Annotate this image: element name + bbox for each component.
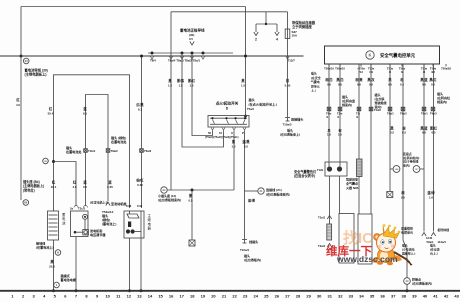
- svg-text:6.1: 6.1: [138, 108, 142, 112]
- node: rail junction T8a2: [191, 52, 194, 55]
- node W: circle on battery lead: [55, 250, 61, 256]
- svg-text:1.5: 1.5: [231, 145, 235, 149]
- svg-text:蓝: 蓝: [83, 106, 87, 111]
- svg-text:Z1: Z1: [259, 189, 263, 193]
- svg-text:0.5: 0.5: [400, 82, 404, 86]
- svg-text:线束内): 线束内): [437, 99, 447, 104]
- svg-text:26: 26: [275, 294, 280, 299]
- svg-text:21: 21: [222, 294, 227, 299]
- node K: circle label: [366, 51, 374, 59]
- wire: bridge left wire to generator plug: [85, 153, 87, 207]
- node 147: junction circle: [413, 166, 420, 173]
- node: branch junction: [191, 189, 194, 192]
- node: relay wire 1 at rail: [128, 289, 131, 292]
- driver airbag igniter N95: [325, 162, 347, 176]
- wire: stub to 148: [390, 168, 393, 170]
- svg-text:气囊电: 气囊电: [311, 79, 320, 84]
- svg-text:束内): 束内): [375, 104, 382, 109]
- node: battery junction: [52, 160, 55, 163]
- wire: clock spring down: [358, 177, 360, 215]
- wire: bracket drop right: [276, 24, 278, 32]
- svg-text:(在仪表板线束内): (在仪表板线束内): [158, 197, 181, 202]
- wire: rail to terminal 50: [192, 53, 213, 136]
- svg-text:蓝/黑: 蓝/黑: [248, 198, 256, 203]
- svg-text:7: 7: [75, 294, 78, 299]
- svg-text:42: 42: [444, 294, 449, 299]
- svg-text:T6e/1: T6e/1: [421, 112, 428, 116]
- svg-text:T8/4: T8/4: [150, 59, 156, 63]
- label: bracket arrows and track numbers: [254, 32, 258, 36]
- svg-text:36: 36: [380, 294, 385, 299]
- svg-text:1.5: 1.5: [338, 133, 342, 137]
- wire: K wire 4: [370, 64, 372, 214]
- wire: K wire 8: [433, 64, 435, 232]
- wire: inner bridge loop: [86, 95, 109, 149]
- wire: second top feed line: [171, 11, 288, 13]
- svg-text:(在安全: (在安全: [311, 75, 321, 80]
- svg-text:40: 40: [423, 294, 428, 299]
- svg-text:T10a/5: T10a/5: [283, 123, 292, 127]
- svg-text:T6e/2: T6e/2: [430, 112, 437, 116]
- wire: rail to terminal 15: [182, 53, 224, 147]
- svg-text:38: 38: [402, 294, 407, 299]
- svg-text:43: 43: [454, 294, 459, 299]
- svg-text:K: K: [369, 53, 372, 58]
- svg-text:P: P: [242, 131, 244, 135]
- svg-text:37: 37: [391, 294, 396, 299]
- svg-text:D: D: [226, 107, 229, 111]
- svg-text:(在蓄电池上): (在蓄电池上): [36, 245, 54, 250]
- svg-text:19: 19: [201, 294, 206, 299]
- svg-text:T2a/1: T2a/1: [318, 216, 326, 220]
- wire: bottom rail: [0, 290, 460, 292]
- svg-text:2a: 2a: [70, 207, 74, 211]
- svg-text:线接头: 线接头: [249, 239, 258, 244]
- svg-text:B4: B4: [24, 200, 28, 204]
- through connector block: [327, 224, 332, 240]
- svg-text:4.0: 4.0: [72, 185, 76, 189]
- svg-text:黑: 黑: [168, 78, 172, 83]
- wire: red/black wire to relay: [141, 153, 143, 209]
- svg-text:0.5: 0.5: [390, 131, 394, 135]
- svg-text:火器 N95: 火器 N95: [346, 185, 359, 190]
- svg-text:43: 43: [406, 279, 409, 283]
- svg-text:148: 148: [395, 169, 399, 171]
- wire: K wire 7: [423, 64, 425, 232]
- svg-text:23: 23: [243, 294, 248, 299]
- plug housing symbol: [189, 240, 195, 246]
- svg-text:15: 15: [158, 294, 163, 299]
- svg-text:黑: 黑: [241, 78, 245, 83]
- svg-text:T12b: T12b: [317, 168, 324, 172]
- svg-text:找IC: 找IC: [343, 229, 373, 247]
- node: feed dot on switch top: [244, 115, 247, 118]
- node B4: relay plate socket circle: [23, 200, 29, 206]
- wire: top feed line 30 from left corner: [21, 6, 246, 8]
- plug housing symbol right: [387, 192, 393, 198]
- node 148: junction circle: [393, 166, 400, 173]
- airbag control unit K: [325, 46, 440, 64]
- svg-text:9: 9: [96, 294, 99, 299]
- svg-text:22: 22: [232, 294, 237, 299]
- svg-text:(在仪表板内): (在仪表板内): [244, 257, 261, 262]
- svg-text:0.35: 0.35: [137, 183, 143, 187]
- wire: drop to fuse S37: [287, 12, 289, 29]
- wire: relay output 1: [129, 238, 131, 291]
- node: rail junction T8a: [181, 52, 184, 55]
- svg-text:在蓄电池处: 在蓄电池处: [66, 149, 82, 154]
- svg-text:(常电位): (常电位): [23, 187, 35, 192]
- svg-text:(在组合仪表中): (在组合仪表中): [294, 173, 315, 178]
- wire: bus rail upper segment: [148, 52, 233, 54]
- svg-text:线束内): 线束内): [342, 102, 352, 107]
- svg-text:蓄电池正极导线: 蓄电池正极导线: [180, 28, 205, 33]
- svg-text:0.5: 0.5: [83, 185, 87, 189]
- svg-text:(主继电器板上): (主继电器板上): [25, 72, 47, 77]
- ignition switch D: [208, 116, 249, 128]
- connector arc generator: [74, 206, 78, 208]
- svg-text:15: 15: [219, 131, 223, 135]
- svg-text:蓝/黑: 蓝/黑: [242, 139, 250, 144]
- svg-text:红/黑: 红/黑: [136, 102, 144, 107]
- svg-text:蓝/绿: 蓝/绿: [427, 190, 435, 195]
- svg-text:20: 20: [211, 294, 216, 299]
- svg-text:T10a/4: T10a/4: [240, 248, 249, 252]
- svg-text:1: 1: [56, 283, 58, 287]
- wire: P output to Z1: [245, 190, 258, 192]
- svg-text:点火/起动开关: 点火/起动开关: [216, 101, 239, 106]
- svg-text:35: 35: [370, 294, 375, 299]
- svg-text:4.0: 4.0: [16, 103, 20, 107]
- svg-text:T6a/1: T6a/1: [387, 112, 394, 116]
- wire: K wire 3: [358, 64, 360, 159]
- svg-text:T8a/4 T8a/3 T8a/2 T8a/1: T8a/4 T8a/3 T8a/2 T8a/1: [168, 59, 200, 63]
- svg-text:插头: 插头: [249, 97, 255, 102]
- svg-text:T12/7: T12/7: [288, 59, 296, 63]
- svg-text:棕: 棕: [399, 77, 404, 82]
- wire: generator ground lead: [75, 237, 77, 292]
- wire: bracket drop left: [255, 24, 257, 32]
- svg-text:束内): 束内): [403, 162, 410, 167]
- svg-text:至发动机舱: 至发动机舱: [111, 201, 127, 206]
- svg-text:T6a/2: T6a/2: [111, 149, 119, 153]
- svg-text:0.5: 0.5: [189, 37, 193, 41]
- svg-text:(在仪表板线束内): (在仪表板线束内): [266, 191, 290, 196]
- svg-text:39: 39: [412, 294, 417, 299]
- svg-text:台上.): 台上.): [430, 251, 438, 256]
- wire: harness connection bracket: [256, 23, 277, 25]
- connector marks below rail: [151, 57, 154, 60]
- svg-text:30: 30: [25, 59, 29, 63]
- svg-text:18: 18: [190, 294, 195, 299]
- svg-text:www.dzsc.com: www.dzsc.com: [336, 254, 398, 264]
- svg-text:黑/紫: 黑/紫: [177, 78, 185, 83]
- node 1: ground point circle: [54, 282, 60, 288]
- wire: switch P output: [244, 131, 246, 192]
- connector bar symbol: [242, 239, 247, 241]
- svg-text:1.5: 1.5: [178, 84, 182, 88]
- belt tensioner igniter box 2: [358, 214, 372, 264]
- svg-text:T6a/2: T6a/2: [400, 112, 407, 116]
- main relay J: [124, 211, 144, 238]
- svg-text:0.5: 0.5: [188, 199, 192, 203]
- node: relay wire 2 at rail: [140, 289, 143, 292]
- svg-text:10: 10: [105, 294, 110, 299]
- connector T6a/2 on right bridge wire: [106, 149, 110, 153]
- svg-text:A2: A2: [162, 188, 166, 192]
- svg-text:C48: C48: [126, 204, 132, 208]
- svg-text:27: 27: [285, 294, 290, 299]
- node A2: junction circle: [161, 187, 167, 193]
- svg-text:3: 3: [33, 294, 36, 299]
- svg-text:32: 32: [338, 294, 343, 299]
- svg-text:棕/红: 棕/红: [135, 178, 144, 183]
- node: rail junction T8a3: [202, 52, 205, 55]
- wire: battery negative lead: [53, 240, 55, 291]
- svg-text:上.): 上.): [311, 88, 316, 93]
- svg-text:黑: 黑: [232, 139, 236, 144]
- svg-text:4: 4: [276, 38, 278, 42]
- svg-text:1.5: 1.5: [189, 84, 193, 88]
- wire: drop from second feed to rail and circle A2: [170, 12, 172, 190]
- svg-text:电压调节器: 电压调节器: [90, 232, 106, 237]
- svg-text:1.0: 1.0: [429, 195, 433, 199]
- svg-text:28: 28: [296, 294, 301, 299]
- svg-text:(在发电机上1): (在发电机上1): [90, 200, 108, 205]
- node: bracket junction: [265, 23, 267, 25]
- wire: red/black wire from rail: [141, 56, 143, 149]
- svg-text:安全气囊电控单元: 安全气囊电控单元: [380, 52, 416, 59]
- svg-text:0.5: 0.5: [431, 131, 435, 135]
- node: junction red/black: [140, 55, 143, 58]
- wire: left wire from 30 rail down: [20, 7, 22, 201]
- arrow: belt tensioner wire 2: [431, 233, 435, 237]
- svg-text:6: 6: [64, 294, 67, 299]
- svg-text:蓄电池电缆: 蓄电池电缆: [61, 277, 77, 282]
- node: generator wire at bottom rail: [75, 289, 78, 292]
- svg-text:T2c/1: T2c/1: [78, 207, 86, 211]
- svg-text:1.5: 1.5: [168, 84, 172, 88]
- node 139: junction circle: [43, 158, 49, 164]
- svg-text:12: 12: [127, 294, 132, 299]
- node: wire 6 at bottom rail: [406, 289, 409, 292]
- svg-text:112a/1: 112a/1: [438, 240, 447, 244]
- wire: battery positive loop: [54, 75, 130, 211]
- wire: igniter wire 2 down: [339, 176, 341, 214]
- svg-text:+T50a: +T50a: [357, 66, 365, 70]
- svg-text:1.5: 1.5: [241, 84, 245, 88]
- node Z1: junction circle right: [258, 188, 264, 194]
- svg-text:T1b/1: T1b/1: [88, 149, 96, 153]
- svg-text:50: 50: [208, 131, 212, 135]
- battery A: [48, 211, 59, 240]
- wire: K wire 1: [328, 64, 330, 166]
- svg-text:55.4: 55.4: [48, 112, 54, 116]
- svg-text:插头: 插头: [311, 71, 317, 76]
- wire: K wire 2: [339, 64, 341, 166]
- svg-text:连接插头: 连接插头: [290, 117, 303, 122]
- node 30a: circle label on rail: [23, 58, 29, 64]
- svg-text:31: 31: [328, 294, 333, 299]
- svg-text:25: 25: [264, 294, 269, 299]
- svg-text:T6a/3: T6a/3: [144, 149, 152, 153]
- wire: branch to plug housing: [191, 190, 193, 240]
- wire: S37 wire below rail: [287, 56, 289, 117]
- connectors on K wires: [327, 107, 331, 111]
- svg-text:2: 2: [22, 294, 25, 299]
- svg-text:1: 1: [11, 294, 14, 299]
- svg-text:棕/白: 棕/白: [324, 77, 332, 82]
- svg-text:蓝: 蓝: [83, 180, 87, 185]
- arrow: to engine compartment: [106, 202, 110, 206]
- watermark mascot: [371, 224, 413, 266]
- belt tensioner igniter box 1: [339, 214, 354, 264]
- wire: relay output 2: [140, 238, 142, 291]
- svg-text:红: 红: [16, 97, 20, 102]
- svg-text:0.5: 0.5: [244, 145, 248, 149]
- svg-text:10A: 10A: [292, 34, 298, 38]
- svg-text:6.1: 6.1: [83, 112, 87, 116]
- svg-text:4: 4: [43, 294, 46, 299]
- svg-text:器: 器: [148, 227, 152, 231]
- clock spring F138: [357, 159, 363, 177]
- svg-text:电控单元: 电控单元: [401, 230, 413, 235]
- wire: stub to 147: [420, 168, 424, 170]
- svg-text:相导体线: 相导体线: [438, 227, 450, 232]
- svg-text:连接线 (Z1): 连接线 (Z1): [265, 187, 282, 192]
- svg-text:41: 41: [433, 294, 438, 299]
- svg-text:在蓄电池处: 在蓄电池处: [111, 139, 127, 144]
- wire: right bridge wire down: [107, 153, 109, 202]
- svg-text:(在点火/起动开关上.): (在点火/起动开关上.): [249, 101, 278, 106]
- svg-text:T2a/1: T2a/1: [318, 244, 326, 248]
- svg-text:2.5: 2.5: [401, 195, 405, 199]
- generator C with regulator: [71, 211, 89, 237]
- svg-text:棕: 棕: [400, 190, 405, 195]
- svg-text:T50a/29: T50a/29: [441, 66, 451, 70]
- svg-text:(在仪表板束上): (在仪表板束上): [280, 131, 300, 136]
- svg-text:/13: /13: [359, 70, 363, 74]
- wire: K wire 5: [389, 64, 391, 192]
- svg-text:147: 147: [415, 169, 419, 171]
- wire: branch down from P: [244, 191, 246, 239]
- wire: fuse S37 down to rail: [287, 39, 289, 57]
- svg-text:0.5: 0.5: [422, 131, 426, 135]
- wire: junction horizontal: [167, 189, 234, 191]
- wire: switch X output: [233, 131, 235, 191]
- wire: igniter wire down: [329, 176, 331, 224]
- wire: bus rail 30: [0, 55, 304, 57]
- svg-text:29: 29: [306, 294, 311, 299]
- svg-text:17: 17: [179, 294, 184, 299]
- svg-text:13: 13: [137, 294, 142, 299]
- svg-text:W: W: [57, 250, 60, 254]
- svg-text:T5a/3: T5a/3: [247, 107, 254, 111]
- svg-text:红: 红: [49, 106, 53, 111]
- node: rail junction ignition feed: [244, 55, 247, 58]
- svg-text:30: 30: [317, 294, 322, 299]
- svg-text:8: 8: [85, 294, 88, 299]
- svg-text:34: 34: [359, 294, 364, 299]
- svg-text:(蓄电池上): (蓄电池上): [102, 221, 116, 226]
- svg-text:控单元: 控单元: [311, 83, 320, 88]
- K box pin stubs and numbers: [328, 64, 330, 67]
- svg-text:2: 2: [255, 38, 257, 42]
- svg-text:立于同侧插座: 立于同侧插座: [292, 24, 312, 29]
- connector bar S37: [285, 117, 290, 119]
- node: battery wire at bottom rail: [52, 289, 55, 292]
- ignition switch terminals: [211, 128, 214, 131]
- svg-text:红: 红: [52, 180, 56, 185]
- connector T1b/1 on left bridge wire: [84, 149, 88, 153]
- svg-text:0.5: 0.5: [402, 131, 406, 135]
- svg-text:33: 33: [349, 294, 354, 299]
- svg-text:11: 11: [116, 294, 121, 299]
- wire: ignition switch feed drop at x=245.5: [245, 7, 247, 116]
- node 43: welding point circle: [404, 278, 411, 285]
- svg-text:器板架上.): 器板架上.): [401, 251, 415, 256]
- connector T6a/3: [140, 149, 144, 153]
- node: rail junction at left frame wire: [20, 55, 23, 58]
- svg-text:16: 16: [169, 294, 174, 299]
- label: feed down arrow: [190, 42, 194, 46]
- svg-text:X: X: [231, 131, 233, 135]
- svg-text:蓝: 蓝: [108, 180, 112, 185]
- wire: K wire 6: [403, 64, 407, 278]
- svg-text:16.1: 16.1: [51, 185, 57, 189]
- svg-text:24: 24: [253, 294, 258, 299]
- svg-text:(在仪表板束内): (在仪表板束内): [412, 281, 432, 286]
- svg-text:1.5: 1.5: [327, 133, 331, 137]
- svg-text:池: 池: [62, 220, 66, 225]
- fuse S37: [285, 29, 290, 39]
- svg-text:T50a: T50a: [399, 66, 406, 70]
- svg-text:0.35: 0.35: [107, 185, 113, 189]
- svg-text:C49: C49: [137, 204, 143, 208]
- wire: branch to generator: [54, 162, 77, 207]
- svg-text:25.0: 25.0: [49, 265, 55, 269]
- arrow: belt tensioner wire 1: [422, 233, 426, 237]
- svg-text:黑/红: 黑/红: [188, 78, 196, 83]
- node: rail junction T8/4: [151, 52, 154, 55]
- svg-text:5: 5: [54, 294, 57, 299]
- svg-text:14: 14: [148, 294, 153, 299]
